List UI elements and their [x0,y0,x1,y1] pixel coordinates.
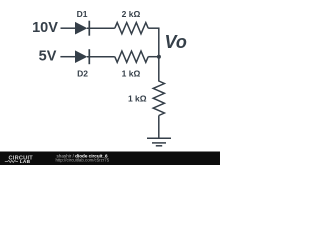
svg-text:1 kΩ: 1 kΩ [122,69,141,79]
watermark footer bar [0,152,220,166]
svg-text:1 kΩ: 1 kΩ [128,94,147,104]
svg-text:LAB: LAB [20,159,31,165]
wire R3 to ground [158,116,160,139]
ground [147,138,171,146]
CircuitLab logo [5,155,33,165]
diode D1 [75,21,89,36]
svg-text:D2: D2 [77,68,88,78]
svg-text:http://circuitlab.com/c5rzr75: http://circuitlab.com/c5rzr75 [56,158,110,163]
svg-text:D1: D1 [77,9,88,19]
wire R2 to junction [148,56,159,58]
wire D2 cathode to R2 [87,56,115,58]
wire R1 to top-right corner [148,27,159,29]
wire 10V to D1 anode [61,27,76,29]
svg-text:2 kΩ: 2 kΩ [122,9,141,19]
resistor R2 1 kOhm horizontal [115,51,148,62]
diode D2 [75,49,89,64]
svg-text:Vo: Vo [165,32,187,52]
junction node dot [157,55,161,59]
svg-text:10V: 10V [32,20,58,36]
wire 5V to D2 anode [60,56,75,58]
resistor R3 1 kOhm vertical [153,81,164,116]
wire D1 cathode to R1 [87,27,115,29]
wire vertical from corner down to R3 (node Vo) [158,28,160,82]
resistor R1 2 kOhm [115,23,148,34]
svg-text:5V: 5V [39,48,57,64]
